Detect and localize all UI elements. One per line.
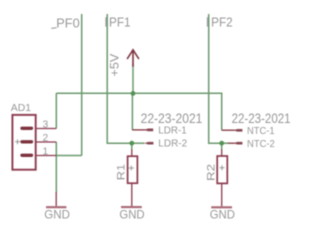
svg-text:GND: GND (210, 209, 235, 222)
svg-text:R1: R1 (115, 164, 127, 180)
svg-text:PF1: PF1 (109, 14, 131, 29)
svg-text:22-23-2021: 22-23-2021 (141, 110, 203, 126)
svg-text:LDR-1: LDR-1 (158, 125, 187, 136)
svg-text:PF0: PF0 (56, 15, 79, 30)
svg-text:2: 2 (43, 133, 49, 144)
svg-text:PF2: PF2 (211, 14, 233, 29)
svg-text:+5V: +5V (110, 53, 122, 76)
svg-text:NTC-2: NTC-2 (247, 139, 275, 150)
svg-text:3: 3 (43, 119, 49, 130)
svg-text:1: 1 (43, 147, 49, 158)
svg-text:LDR-2: LDR-2 (158, 138, 187, 149)
svg-text:AD1: AD1 (11, 103, 31, 114)
svg-text:GND: GND (44, 208, 70, 221)
svg-text:GND: GND (119, 208, 144, 221)
svg-text:R2: R2 (206, 164, 218, 181)
svg-text:NTC-1: NTC-1 (247, 126, 275, 137)
svg-text:22-23-2021: 22-23-2021 (232, 110, 291, 126)
